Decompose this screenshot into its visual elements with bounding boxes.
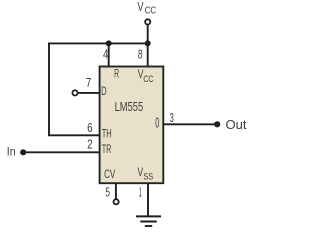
svg-text:CV: CV — [104, 167, 115, 181]
svg-text:CC: CC — [145, 6, 157, 17]
ground — [136, 216, 161, 226]
svg-text:TH: TH — [102, 127, 112, 141]
svg-text:5: 5 — [105, 184, 110, 199]
svg-text:6: 6 — [87, 120, 93, 135]
pin 5 open terminal — [114, 199, 119, 204]
wire: D pin 7 stub — [78, 92, 101, 94]
wire: In to TR pin 2 — [23, 151, 100, 153]
svg-text:8: 8 — [138, 46, 143, 61]
svg-text:V: V — [138, 165, 144, 179]
svg-text:Out: Out — [226, 118, 248, 132]
svg-text:D: D — [101, 84, 107, 98]
svg-text:In: In — [7, 146, 16, 158]
svg-text:V: V — [137, 0, 144, 14]
wire: left vertical of loop — [48, 43, 50, 137]
wire: pin 4 drop to IC — [108, 43, 110, 67]
wire: top horizontal bus from left loop to Vcc junction — [48, 42, 148, 44]
pin 7 open terminal — [72, 90, 77, 95]
IC body U1 LM555 — [100, 67, 164, 184]
svg-text:R: R — [114, 67, 119, 81]
svg-text:4: 4 — [103, 46, 108, 61]
junction dot at pin 8 / bus — [145, 40, 151, 46]
wire: pin 3 to Out — [163, 123, 217, 125]
svg-text:CC: CC — [143, 74, 153, 85]
svg-text:1: 1 — [139, 184, 142, 199]
svg-text:LM555: LM555 — [115, 99, 144, 114]
wire: CV pin 5 stub down — [115, 183, 117, 200]
junction dot at pin 4 / bus — [106, 40, 112, 46]
svg-text:2: 2 — [87, 137, 93, 152]
wire: horizontal into TH pin 6 — [49, 134, 101, 136]
label Vcc supply — [137, 0, 156, 17]
svg-text:TR: TR — [102, 142, 112, 156]
svg-text:7: 7 — [86, 75, 92, 90]
wire: pin 8 from Vcc terminal down to IC — [147, 25, 149, 68]
svg-text:SS: SS — [143, 172, 153, 183]
Vcc open terminal — [145, 19, 150, 24]
wire: pin 1 down to ground — [147, 183, 149, 217]
svg-text:3: 3 — [170, 110, 174, 125]
svg-text:0: 0 — [155, 116, 159, 132]
node In terminal dot — [20, 149, 26, 155]
node Out terminal dot — [214, 121, 220, 127]
